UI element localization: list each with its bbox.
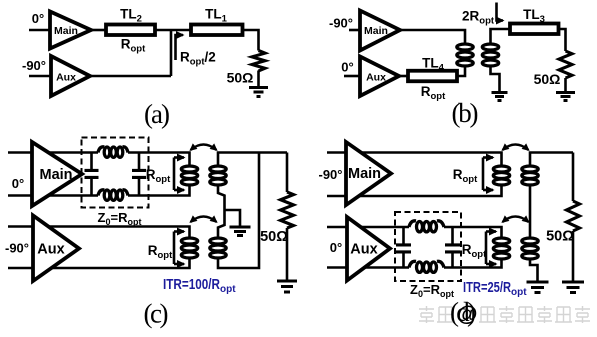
op-amp Aux (d) — [347, 217, 390, 281]
svg-text:(b): (b) — [452, 98, 479, 128]
inductor L2 (c lattice bottom) — [98, 190, 104, 196]
arrow impedance 2Ropt (b) — [497, 3, 504, 21]
resistor 50ohm (a) — [252, 51, 265, 72]
svg-text:Aux: Aux — [366, 72, 386, 84]
op-amp Aux (a) — [51, 56, 90, 96]
wire resistor to ground (c) — [286, 228, 289, 280]
wire aux bottom out (d) — [327, 259, 502, 268]
wire main input (a) — [29, 29, 50, 32]
transformer T3 secondary (d) — [522, 166, 538, 185]
transmission line TL1 — [191, 25, 243, 36]
svg-text:0°: 0° — [12, 176, 24, 191]
wire load branch (c) — [286, 153, 289, 193]
svg-text:Aux: Aux — [37, 242, 64, 258]
op-amp Main (d) — [346, 142, 391, 205]
ground middle (c) — [230, 227, 251, 236]
resistor 50ohm (d) — [567, 201, 580, 231]
svg-text:(c): (c) — [144, 299, 169, 329]
impedance bracket arrows (d main xfmr) — [482, 158, 485, 191]
coupling arrow (c T2) — [189, 215, 217, 223]
svg-text:Main: Main — [348, 166, 381, 182]
wire load branch (d) — [572, 153, 575, 202]
wire secondary top to TL3 (b) — [491, 29, 511, 44]
watermark zhihu — [419, 303, 590, 326]
wire secondary to ground (b) — [491, 66, 500, 92]
wire resistor to ground (d) — [572, 231, 575, 281]
svg-text:50Ω: 50Ω — [227, 70, 254, 86]
wire main out to transformer (b) — [400, 30, 465, 44]
svg-text:(a): (a) — [144, 99, 170, 129]
arrow impedance Ropt/2 (a) — [176, 35, 184, 60]
op-amp Aux (c) — [33, 216, 79, 282]
transformer T2 primary (c) — [181, 238, 197, 258]
wire secondary bottom to output (c) — [218, 153, 259, 269]
wire aux out (b) — [399, 75, 408, 78]
wire main top output (c) — [8, 153, 190, 165]
wire main bottom output (c) — [8, 187, 190, 196]
wire aux input (a) — [29, 75, 51, 78]
svg-text:0°: 0° — [341, 60, 353, 75]
svg-text:50Ω: 50Ω — [534, 71, 561, 87]
lattice dashed box (c) — [82, 138, 149, 208]
ground (a) — [249, 88, 268, 97]
capacitor C1 (c lattice left) — [90, 153, 93, 196]
transformer T2 secondary (c) — [210, 238, 226, 258]
op-amp Main (a) — [50, 12, 91, 49]
svg-text:-90°: -90° — [5, 241, 29, 256]
transmission line TL4 — [408, 71, 457, 82]
coupling arrow (d T3) — [501, 143, 529, 151]
coupling arrow (c T1) — [189, 143, 217, 151]
wire main out to TL2 (a) — [91, 29, 106, 32]
svg-text:0°: 0° — [330, 240, 342, 255]
capacitor C4 (d lattice right) — [451, 227, 454, 268]
op-amp Aux (b) — [360, 57, 399, 97]
svg-text:Main: Main — [54, 25, 78, 37]
transformer T1 primary (c) — [181, 166, 197, 185]
svg-text:Main: Main — [39, 167, 72, 183]
svg-text:(d): (d) — [450, 297, 476, 327]
transformer T4 secondary (d) — [522, 238, 538, 259]
wire main top output (d) — [327, 153, 502, 165]
svg-text:-90°: -90° — [22, 58, 46, 73]
svg-text:Aux: Aux — [56, 72, 76, 84]
wire primary to TL4 (b) — [457, 66, 465, 76]
wire aux out (a) — [90, 75, 171, 78]
transformer T1 secondary (b) — [482, 44, 498, 66]
inductor L1 (c lattice top) — [98, 147, 104, 153]
transformer T3 primary (d) — [493, 166, 509, 185]
wire TL3 to load (b) — [559, 29, 566, 51]
wire aux top out (c) — [8, 227, 190, 238]
wire main bottom output (d) — [327, 186, 502, 197]
wire aux bottom out (c) — [8, 259, 190, 269]
wire secondary series path (c) — [218, 186, 225, 237]
ground load (c) — [277, 281, 297, 292]
transformer T4 primary (d) — [493, 238, 509, 259]
inductor L3 (d lattice top) — [409, 221, 416, 227]
wire ground branch (c) — [225, 210, 241, 226]
capacitor C2 (c lattice right) — [138, 153, 141, 196]
wire series link secondaries (d) — [529, 186, 532, 237]
wire aux top out (d) — [327, 227, 502, 237]
wire junction to aux (a) — [170, 30, 173, 76]
transformer T1 secondary (c) — [210, 166, 226, 185]
wire resistor to ground (b) — [564, 78, 567, 92]
wire main input (b) — [349, 29, 360, 32]
op-amp Main (b) — [360, 11, 400, 51]
wire TL1 to load (a) — [243, 30, 259, 51]
transmission line TL2 — [106, 25, 155, 36]
wire aux input (b) — [344, 75, 360, 78]
wire TL2 to TL1 (a) — [155, 29, 191, 32]
transformer T1 primary (b) — [457, 44, 473, 66]
impedance bracket arrows (c main xfmr) — [173, 158, 176, 191]
coupling arrow (d T4) — [501, 215, 529, 223]
ground of transformer (b) — [492, 93, 508, 101]
inductor L4 (d lattice bottom) — [409, 261, 416, 267]
op-amp Main (c) — [32, 142, 82, 206]
svg-text:-90°: -90° — [319, 167, 343, 182]
ground middle (d) — [527, 282, 549, 293]
svg-text:50Ω: 50Ω — [260, 229, 288, 245]
svg-text:Aux: Aux — [350, 242, 377, 258]
transmission line TL3 — [510, 24, 559, 35]
resistor 50ohm (c) — [281, 192, 294, 228]
wire resistor to ground (a) — [257, 71, 260, 87]
svg-text:-90°: -90° — [329, 16, 353, 31]
ground of load (b) — [556, 93, 575, 101]
capacitor C3 (d lattice left) — [402, 227, 405, 268]
resistor 50ohm (b) — [559, 51, 572, 78]
lattice dashed box (d) — [395, 212, 461, 281]
impedance bracket arrows (d aux xfmr) — [485, 232, 488, 265]
wire output node (c) — [218, 153, 287, 165]
impedance bracket arrows (c aux xfmr) — [173, 232, 176, 265]
wire secondary to ground (d) — [530, 260, 538, 282]
wire output node (d) — [530, 153, 573, 165]
svg-text:50Ω: 50Ω — [546, 229, 574, 245]
ground load (d) — [562, 282, 584, 293]
svg-text:Main: Main — [364, 25, 388, 37]
svg-text:0°: 0° — [32, 11, 44, 26]
